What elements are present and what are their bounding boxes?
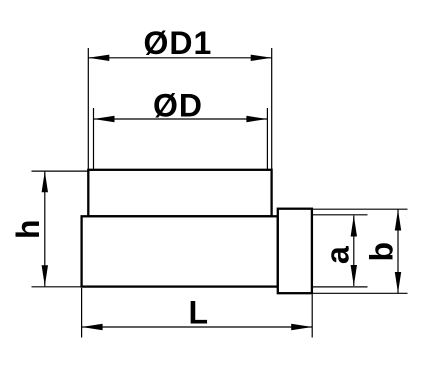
dimension a extension line top xyxy=(311,214,368,216)
dimension b line with arrows xyxy=(395,210,401,294)
label L xyxy=(189,294,209,330)
label a (rotated) xyxy=(320,246,356,264)
spigot (right collar outline) xyxy=(278,209,312,294)
svg-text:ØD1: ØD1 xyxy=(144,25,213,61)
label OD xyxy=(153,88,203,124)
dimension OD line with arrows xyxy=(94,116,268,122)
svg-text:L: L xyxy=(189,294,209,330)
dimension h extension line bottom xyxy=(32,286,82,288)
dimension h line with arrows xyxy=(42,171,48,286)
dimension OD1 extension line right xyxy=(271,48,273,169)
dimension a extension line bottom xyxy=(311,286,368,288)
dimension b extension line bottom xyxy=(311,292,408,294)
dimension h extension line top xyxy=(32,170,89,172)
svg-text:a: a xyxy=(320,246,356,264)
dimension OD extension line right xyxy=(266,108,268,169)
dimension L extension line right xyxy=(311,295,313,338)
dimension L extension line left xyxy=(81,288,83,338)
body (main rectangle outline) xyxy=(82,216,278,286)
dimension OD1 line with arrows xyxy=(88,55,271,61)
label b (rotated) xyxy=(364,242,400,262)
label h (rotated) xyxy=(10,219,46,239)
flange (top plate outline) xyxy=(88,170,271,217)
label OD1 xyxy=(144,25,213,61)
dimension b extension line top xyxy=(311,208,408,210)
svg-text:h: h xyxy=(10,219,46,239)
dimension a line with arrows xyxy=(351,216,357,287)
svg-text:b: b xyxy=(364,242,400,262)
dimension L line with arrows xyxy=(82,324,313,330)
svg-text:ØD: ØD xyxy=(153,88,203,124)
dimension OD1 extension line left xyxy=(87,48,89,169)
dimension OD extension line left xyxy=(93,108,95,169)
